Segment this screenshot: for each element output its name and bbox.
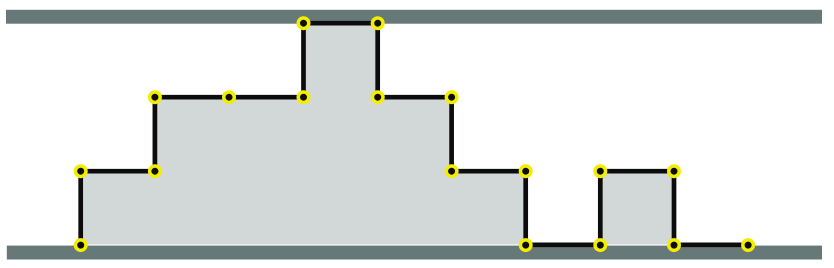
- node 9 (378,97): [372, 92, 383, 103]
- node 10 (451.5,97): [446, 92, 457, 103]
- node 18 (748,245): [743, 240, 754, 251]
- top wall bar: [6, 10, 822, 24]
- node 13 (525.5,245): [520, 240, 531, 251]
- wire: small square top y=171: [600, 169, 674, 174]
- bottom wall bar: [7, 246, 822, 260]
- node 4 (155,97): [150, 92, 161, 103]
- wire: left vertical rise x=81: [78, 171, 83, 245]
- node 7 (304,23): [298, 18, 309, 29]
- wire: horizontal step y=171 left: [81, 169, 155, 174]
- wire: vertical rise x=600.5: [598, 171, 603, 245]
- node 5 (229.5,97): [224, 92, 235, 103]
- node 11 (451.5,171): [446, 166, 457, 177]
- wire: horizontal step y=97 right: [378, 95, 452, 100]
- wire: vertical rise x=304: [301, 23, 306, 97]
- node 15 (600.5,171): [595, 166, 606, 177]
- node 3 (155,171): [150, 166, 161, 177]
- wire: ground segment between buildings: [526, 242, 601, 247]
- node 1 (81,245): [75, 240, 86, 251]
- node 16 (674,171): [669, 166, 680, 177]
- node 17 (674,245): [669, 240, 680, 251]
- wire: vertical fall x=674: [672, 171, 677, 245]
- wire: top horizontal y=23: [304, 21, 378, 26]
- node 8 (378,23): [372, 18, 383, 29]
- node 14 (600.5,245): [595, 240, 606, 251]
- node 2 (81,171): [75, 166, 86, 177]
- wire: vertical fall x=525.5: [523, 171, 528, 245]
- big staircase polygon fill: [81, 23, 526, 244]
- wire: vertical rise x=155: [153, 97, 158, 171]
- node 12 (525.5,171): [520, 166, 531, 177]
- node 6 (304,97): [298, 92, 309, 103]
- wire: long horizontal step y=97 left: [155, 95, 304, 100]
- wire: vertical fall x=378: [375, 23, 380, 97]
- small square polygon fill: [600, 171, 674, 244]
- wire: horizontal step y=171 right: [452, 169, 526, 174]
- wire: vertical fall x=451.5: [449, 97, 454, 171]
- wire: final ground segment: [674, 242, 748, 247]
